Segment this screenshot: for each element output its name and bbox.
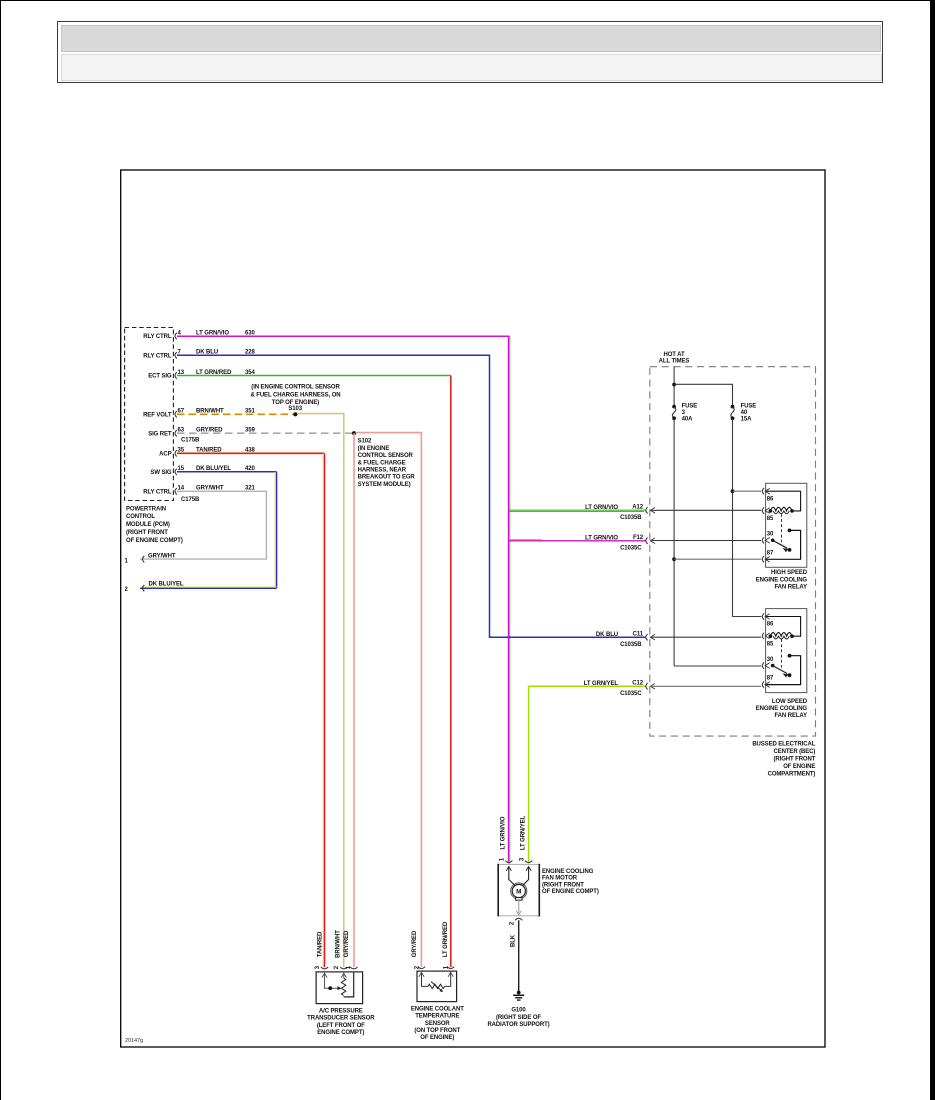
PCM connector arc pin 14 <box>175 488 177 494</box>
svg-text:LT GRN/VIO: LT GRN/VIO <box>585 535 618 541</box>
connector arc/arrow at BEC edge for C11 <box>646 634 648 640</box>
svg-text:(RIGHT FRONT: (RIGHT FRONT <box>774 757 816 763</box>
PCM connector arc pin 13 <box>175 372 177 378</box>
svg-text:3: 3 <box>519 857 525 861</box>
svg-text:LT GRN/VIO: LT GRN/VIO <box>585 505 618 511</box>
relay pin connector arc <box>762 556 764 562</box>
svg-text:2: 2 <box>414 965 420 969</box>
svg-text:(RIGHT SIDE OF: (RIGHT SIDE OF <box>496 1015 541 1021</box>
svg-text:SIG RET: SIG RET <box>148 431 172 437</box>
splice S103 <box>293 412 297 416</box>
svg-text:3: 3 <box>682 410 686 416</box>
PCM connector arc pin 63 <box>175 430 177 436</box>
svg-text:SENSOR: SENSOR <box>425 1021 451 1027</box>
internal wire LS relay 87 to BEC edge (C12) <box>651 685 762 687</box>
relay coil <box>770 507 792 511</box>
svg-text:RADIATOR SUPPORT): RADIATOR SUPPORT) <box>487 1022 549 1028</box>
svg-text:CONTROL: CONTROL <box>126 514 155 520</box>
svg-text:ECT SIG: ECT SIG <box>148 374 172 380</box>
svg-text:ACP: ACP <box>159 451 171 457</box>
svg-text:BUSSED ELECTRICAL: BUSSED ELECTRICAL <box>752 742 815 748</box>
svg-text:F12: F12 <box>633 535 644 541</box>
relay NO contact to pin 87 <box>788 654 792 658</box>
fan motor symbol M <box>512 884 525 897</box>
wire GRY/RED branch to ECT sensor <box>356 433 422 968</box>
wire DK BLU/YEL 420 from PCM pin 15 <box>177 471 277 473</box>
svg-text:(RIGHT FRONT: (RIGHT FRONT <box>126 530 168 536</box>
svg-text:CONTROL SENSOR: CONTROL SENSOR <box>358 453 414 459</box>
wire GRY/WHT 321 from PCM pin 14 <box>140 491 266 559</box>
splice S102 <box>352 431 356 435</box>
junction to high speed relay 86 <box>731 489 735 493</box>
svg-text:LT GRN/RED: LT GRN/RED <box>443 921 449 957</box>
relay pin connector arc <box>762 507 764 513</box>
svg-text:DK BLU: DK BLU <box>596 632 618 638</box>
svg-text:87: 87 <box>767 676 774 682</box>
svg-text:BLK: BLK <box>511 934 517 947</box>
svg-text:TAN/RED: TAN/RED <box>317 931 323 957</box>
relay pin connector arc <box>762 633 764 639</box>
svg-text:BRN/WHT: BRN/WHT <box>335 930 341 958</box>
wire DK BLU/YEL lower horizontal to PCM pin 2 <box>140 586 277 588</box>
svg-text:& FUEL CHARGE: & FUEL CHARGE <box>358 460 406 466</box>
svg-text:M: M <box>516 888 521 895</box>
svg-text:C1035C: C1035C <box>620 691 642 697</box>
relay 86 feed internal path <box>766 617 800 637</box>
svg-text:30: 30 <box>767 532 774 538</box>
relay 86 feed internal path <box>766 491 800 511</box>
relay outline box <box>766 609 807 693</box>
svg-text:S102: S102 <box>358 439 372 445</box>
BEC dashed box <box>650 367 816 736</box>
svg-text:LT GRN/YEL: LT GRN/YEL <box>584 681 619 687</box>
wire DK BLU 228 from PCM pin 7 <box>177 355 646 637</box>
svg-text:GRY/RED: GRY/RED <box>344 930 350 957</box>
svg-text:A/C PRESSURE: A/C PRESSURE <box>319 1009 363 1015</box>
A/C pressure transducer sensor box <box>316 972 363 1004</box>
svg-text:HARNESS, NEAR: HARNESS, NEAR <box>358 468 407 474</box>
svg-text:OF ENGINE COMPT): OF ENGINE COMPT) <box>126 538 183 544</box>
wire LT GRN/VIO branch to F12 <box>509 539 542 541</box>
wire LT GRN/RED vertical to ECT sensor <box>450 376 452 968</box>
wire LT GRN/VIO 630 horizontal from PCM pin 4 <box>177 335 510 337</box>
A/C sensor caption <box>307 1009 375 1036</box>
svg-text:1: 1 <box>125 558 129 564</box>
svg-text:1: 1 <box>499 857 505 861</box>
fuse 40 branch to low speed relay 86 <box>733 616 762 618</box>
PCM caption text <box>126 506 183 544</box>
relay outline box <box>766 483 807 567</box>
svg-text:85: 85 <box>767 641 774 647</box>
engine coolant temperature sensor box <box>417 971 457 1002</box>
svg-text:OF ENGINE: OF ENGINE <box>783 764 815 770</box>
svg-text:85: 85 <box>767 516 774 522</box>
relay armature dashed link <box>781 514 783 543</box>
BEC feed bus vertical (fuse 3 branch) <box>673 367 675 406</box>
wire TAN/RED vertical to A/C sensor <box>322 453 324 967</box>
svg-text:RLY CTRL: RLY CTRL <box>143 353 172 359</box>
wire DK BLU/YEL vertical <box>274 472 276 588</box>
svg-text:LT GRN/VIO: LT GRN/VIO <box>500 816 506 849</box>
svg-text:CENTER (BEC): CENTER (BEC) <box>773 749 815 755</box>
PCM connector arc pin 7 <box>175 352 177 358</box>
svg-text:MODULE (PCM): MODULE (PCM) <box>126 522 170 528</box>
PCM connector arc pin 35 <box>175 450 177 456</box>
S102 note text <box>358 439 416 488</box>
svg-text:(RIGHT FRONT: (RIGHT FRONT <box>542 882 584 888</box>
wire GRY/RED branch down to A/C sensor <box>353 433 355 967</box>
ground G100 symbol <box>517 991 521 995</box>
svg-text:ENGINE COOLING: ENGINE COOLING <box>542 869 594 875</box>
svg-text:SYSTEM MODULE): SYSTEM MODULE) <box>358 482 411 488</box>
internal wire BEC edge to HS relay coil (A12) <box>651 509 762 511</box>
svg-text:ENGINE COOLING: ENGINE COOLING <box>756 577 808 583</box>
svg-text:G100: G100 <box>511 1007 526 1013</box>
svg-text:COMPARTMENT): COMPARTMENT) <box>768 772 816 778</box>
svg-text:FAN RELAY: FAN RELAY <box>774 713 807 719</box>
svg-text:LT GRN/YEL: LT GRN/YEL <box>520 815 526 850</box>
svg-text:POWERTRAIN: POWERTRAIN <box>126 506 166 512</box>
wire LT GRN/VIO vertical trunk to relays and fan <box>508 336 510 864</box>
PCM connector arc pin 67 <box>175 411 177 417</box>
fan motor ground lead <box>518 900 520 913</box>
svg-text:RLY CTRL: RLY CTRL <box>143 489 172 495</box>
svg-text:3: 3 <box>315 965 321 969</box>
relay pin connector arc <box>762 662 764 668</box>
relay pin connector arc <box>762 681 764 687</box>
relay pin connector arc <box>762 613 764 619</box>
svg-text:OF ENGINE COMPT): OF ENGINE COMPT) <box>542 889 599 895</box>
fuse 3 branch to low speed relay 30 <box>674 665 761 667</box>
svg-text:86: 86 <box>767 496 774 502</box>
ECT sensor caption <box>411 1007 464 1041</box>
svg-text:SW SIG: SW SIG <box>150 470 172 476</box>
junction node <box>672 383 676 387</box>
svg-text:(ON TOP FRONT: (ON TOP FRONT <box>414 1028 460 1034</box>
fuse 40 output vertical <box>732 418 734 616</box>
fan motor box <box>498 864 539 915</box>
svg-text:FUSE: FUSE <box>682 404 698 410</box>
wire LT GRN/VIO branch to A12 <box>509 509 646 511</box>
relay switch: common 30 and movable contact <box>771 664 775 668</box>
svg-text:C1035B: C1035B <box>620 642 642 648</box>
svg-text:(IN ENGINE CONTROL SENSOR: (IN ENGINE CONTROL SENSOR <box>251 385 340 391</box>
svg-text:RLY CTRL: RLY CTRL <box>143 334 172 340</box>
connector arc/arrow at BEC edge for A12 <box>646 507 648 513</box>
fan motor caption <box>542 869 599 895</box>
svg-text:ENGINE COOLANT: ENGINE COOLANT <box>411 1007 464 1013</box>
svg-text:40: 40 <box>741 410 748 416</box>
PCM connector arc pin 15 <box>175 469 177 475</box>
svg-text:ALL TIMES: ALL TIMES <box>659 359 690 365</box>
connector arc/arrow at BEC edge for F12 <box>646 538 648 544</box>
fan motor pin 2 <box>515 918 522 920</box>
svg-text:C12: C12 <box>632 681 643 687</box>
junction to high speed relay 87 <box>672 557 676 561</box>
wire BRN/WHT tan branch to A/C sensor <box>297 414 344 968</box>
svg-text:C175B: C175B <box>181 438 200 444</box>
wire LT GRN/YEL from C12 to fan <box>529 686 646 863</box>
relay armature dashed link <box>781 639 783 668</box>
relay NO contact to pin 87 <box>788 529 792 533</box>
BEC feed branch to fuse 40 <box>674 384 732 405</box>
svg-text:HOT AT: HOT AT <box>663 352 684 358</box>
svg-text:GRY/WHT: GRY/WHT <box>148 553 176 559</box>
svg-text:86: 86 <box>767 622 774 628</box>
svg-text:FAN MOTOR: FAN MOTOR <box>542 876 578 882</box>
internal wire BEC edge to HS relay 30 (F12) <box>651 540 762 542</box>
svg-text:BREAKOUT TO EGR: BREAKOUT TO EGR <box>358 475 416 481</box>
svg-text:FAN RELAY: FAN RELAY <box>774 584 807 590</box>
svg-text:2: 2 <box>125 587 129 593</box>
svg-text:LOW SPEED: LOW SPEED <box>772 699 808 705</box>
wire TAN/RED 438 from PCM pin 35 <box>177 451 324 453</box>
relay switch: common 30 and movable contact <box>771 539 775 543</box>
wire BLK from fan motor to ground <box>518 920 520 992</box>
diagram outer frame <box>121 170 825 1047</box>
svg-text:C175B: C175B <box>181 497 200 503</box>
svg-text:OF ENGINE): OF ENGINE) <box>420 1035 454 1041</box>
svg-text:87: 87 <box>767 550 774 556</box>
connector arc/arrow at BEC edge for C12 <box>646 683 648 689</box>
PCM connector dashed box <box>125 328 174 501</box>
relay pin connector arc <box>762 537 764 543</box>
svg-text:(IN ENGINE: (IN ENGINE <box>358 446 390 452</box>
svg-text:GRY/RED: GRY/RED <box>412 930 418 957</box>
svg-text:C1035C: C1035C <box>620 545 642 551</box>
svg-text:& FUEL CHARGE HARNESS, ON: & FUEL CHARGE HARNESS, ON <box>250 392 340 398</box>
PCM connector arc pin 4 <box>175 333 177 339</box>
wire GRY/RED 359 dashed from PCM pin 63 <box>177 432 354 434</box>
svg-text:C11: C11 <box>633 632 644 638</box>
svg-text:HIGH SPEED: HIGH SPEED <box>771 570 808 576</box>
svg-text:40A: 40A <box>682 417 693 423</box>
wire BRN/WHT 351 dashed from PCM pin 67 <box>177 413 295 415</box>
svg-text:A12: A12 <box>632 505 643 511</box>
note: in engine control sensor harness (top) <box>250 385 340 407</box>
BEC caption <box>752 742 815 778</box>
internal wire BEC edge to LS relay coil (C11) <box>651 636 762 638</box>
svg-text:30: 30 <box>767 657 774 663</box>
svg-text:(LEFT FRONT OF: (LEFT FRONT OF <box>317 1023 365 1029</box>
svg-text:REF VOLT: REF VOLT <box>143 412 172 418</box>
svg-text:20147g: 20147g <box>125 1038 143 1044</box>
ECT sensor internals (thermistor) <box>419 972 424 976</box>
svg-text:FUSE: FUSE <box>741 404 757 410</box>
svg-text:DK BLU/YEL: DK BLU/YEL <box>149 582 184 588</box>
fuse 3 output vertical <box>673 418 675 666</box>
svg-text:S103: S103 <box>288 406 302 412</box>
fuse 3 40A symbol <box>672 405 676 409</box>
relay pin connector arc <box>762 488 764 494</box>
relay coil <box>770 633 792 637</box>
svg-text:TEMPERATURE: TEMPERATURE <box>415 1014 459 1020</box>
svg-text:C1035B: C1035B <box>620 515 642 521</box>
svg-text:TRANSDUCER SENSOR: TRANSDUCER SENSOR <box>307 1016 375 1022</box>
A/C sensor internals <box>322 973 327 977</box>
fan motor internal leads <box>506 867 511 871</box>
svg-text:ENGINE COMPT): ENGINE COMPT) <box>317 1030 364 1036</box>
svg-text:2: 2 <box>334 965 340 969</box>
svg-text:2: 2 <box>509 921 515 925</box>
fuse 40 15A symbol <box>731 405 735 409</box>
svg-text:15A: 15A <box>741 417 752 423</box>
wire LT GRN/RED 354 from PCM pin 13 <box>177 375 451 377</box>
svg-text:ENGINE COOLING: ENGINE COOLING <box>756 706 808 712</box>
